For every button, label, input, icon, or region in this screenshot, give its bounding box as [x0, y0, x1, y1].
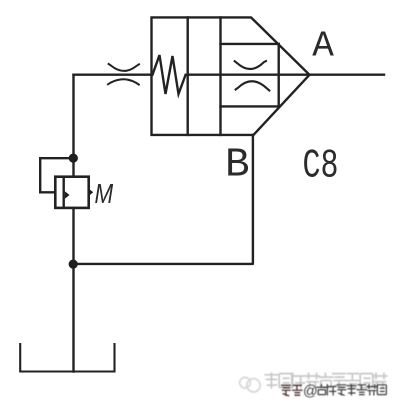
wire: pilot loop to valve M [40, 158, 73, 192]
wire: valve centerline and port A line [186, 73, 384, 75]
watermark logo circles [240, 377, 261, 392]
svg-text:A: A [312, 26, 334, 67]
poppet seat lower arc [236, 81, 270, 90]
valve M outlet nub [89, 189, 94, 196]
valve M poppet [65, 191, 70, 199]
watermark faint text row [265, 373, 388, 389]
cartridge valve C8: poppet box right line [278, 44, 280, 107]
valve M seat line [63, 177, 65, 208]
watermark dark row: account name [317, 384, 328, 395]
svg-text:@: @ [303, 384, 318, 400]
wire: left vertical upper segment [72, 75, 74, 177]
spring [153, 55, 186, 94]
cartridge valve C8: sleeve divider [219, 17, 221, 134]
cartridge valve C8: spring chamber divider [186, 17, 188, 134]
cartridge valve C8: poppet box top line [221, 43, 279, 45]
poppet seat upper arc [235, 61, 266, 69]
junction dot (tank line) [69, 260, 78, 269]
watermark @ sign [303, 384, 318, 400]
svg-text:M: M [95, 179, 114, 210]
valve M body [55, 177, 88, 208]
cartridge valve C8: poppet box bottom line [221, 105, 279, 107]
svg-text:C8: C8 [303, 143, 339, 189]
junction dot (pilot tap) [69, 154, 78, 163]
wire: port B vertical drop [74, 135, 253, 264]
orifice (fixed restriction) on pilot line [108, 64, 139, 85]
svg-text:B: B [225, 143, 250, 189]
tank symbol [20, 344, 114, 372]
wire: pilot supply horizontal line [74, 73, 152, 75]
cartridge valve C8: outer body outline [152, 17, 310, 134]
watermark dark row: brand [281, 384, 386, 400]
wire: left vertical lower segment [72, 208, 74, 372]
